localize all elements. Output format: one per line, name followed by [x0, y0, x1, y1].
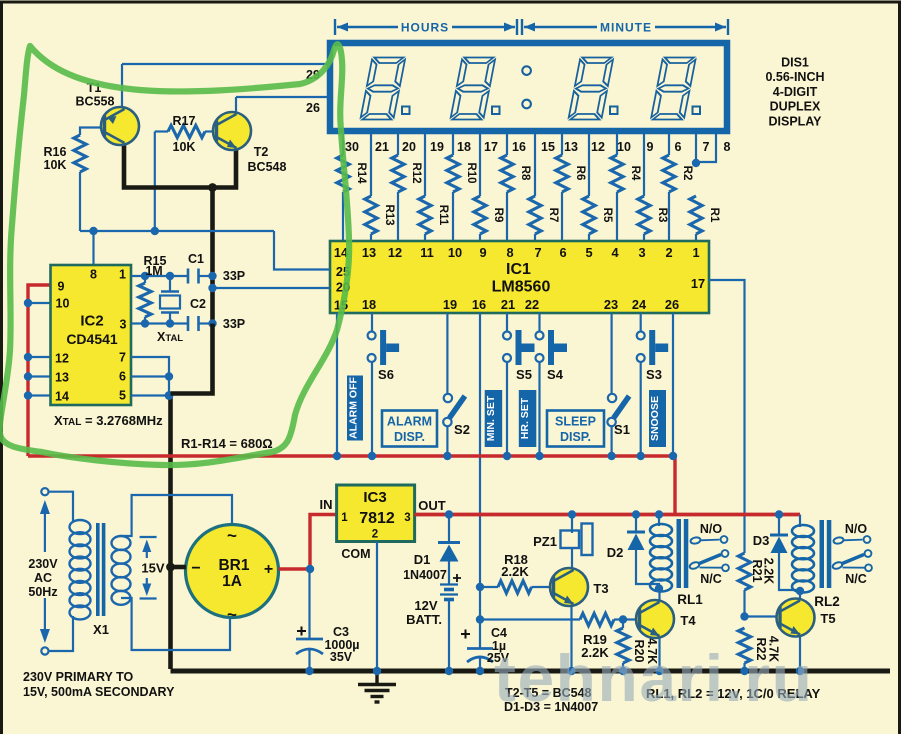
switch S5 — [503, 332, 511, 340]
svg-text:30: 30 — [345, 140, 359, 154]
svg-text:R1: R1 — [708, 208, 720, 223]
switch S2 toggle — [449, 396, 465, 418]
svg-text:R16: R16 — [44, 145, 67, 159]
relay RL2 contacts N/O N/C — [833, 537, 844, 545]
svg-text:26: 26 — [665, 297, 679, 312]
svg-text:C4: C4 — [491, 626, 507, 640]
svg-text:7: 7 — [534, 245, 541, 260]
svg-text:230V: 230V — [28, 557, 58, 571]
svg-text:33P: 33P — [223, 317, 245, 331]
svg-text:21: 21 — [375, 140, 389, 154]
svg-text:PZ1: PZ1 — [533, 534, 557, 549]
svg-text:R4: R4 — [629, 166, 641, 181]
resistor R6 — [561, 134, 563, 155]
wire IC1 pin 15 down — [336, 313, 338, 456]
relay RL1 coil — [658, 515, 660, 527]
svg-text:R5: R5 — [601, 208, 613, 223]
svg-text:26: 26 — [306, 101, 320, 115]
black wire crystal gnd to pin5 — [171, 324, 213, 394]
svg-text:14: 14 — [55, 390, 69, 404]
green marker loop — [0, 44, 349, 465]
svg-text:18: 18 — [362, 297, 376, 312]
switch S6 — [368, 332, 376, 340]
svg-text:5: 5 — [119, 389, 126, 403]
label box SLEEP DISP. — [547, 411, 604, 447]
ground bus dots right — [567, 667, 575, 675]
resistor R17 — [155, 130, 168, 132]
svg-text:IC2: IC2 — [80, 313, 103, 330]
svg-text:BC548: BC548 — [248, 160, 287, 174]
svg-text:R8: R8 — [519, 166, 531, 181]
red +V wire left (IC2 pin 9 to red bus) — [28, 285, 52, 456]
display DIS1 box — [330, 43, 727, 131]
svg-text:S5: S5 — [516, 367, 532, 382]
wire IC1 pin 25 — [274, 231, 330, 270]
svg-text:R10: R10 — [465, 162, 477, 183]
diode D3 — [778, 515, 780, 536]
MINUTE dimension arrow — [522, 19, 728, 35]
svg-text:1A: 1A — [222, 573, 242, 590]
15V dimension arrows — [140, 537, 157, 599]
svg-text:IN: IN — [320, 497, 333, 512]
svg-text:BC558: BC558 — [76, 95, 115, 109]
diode D2 — [635, 515, 637, 533]
wire secondary top to BR1 — [121, 495, 232, 536]
display digit 4 — [651, 58, 696, 120]
ground bus — [171, 669, 891, 674]
svg-text:LM8560: LM8560 — [492, 279, 551, 296]
svg-text:OUT: OUT — [418, 498, 446, 513]
black wire BR1 minus stub — [171, 565, 187, 570]
svg-text:1: 1 — [692, 245, 699, 260]
resistor R8 — [506, 134, 508, 155]
display colon — [522, 66, 531, 75]
svg-text:7: 7 — [119, 351, 126, 365]
svg-text:SLEEP: SLEEP — [555, 415, 596, 429]
wire R17 left to blue bus — [154, 132, 156, 232]
wire IC1 pin 22 down / switch S4 — [538, 313, 540, 332]
svg-text:10: 10 — [617, 140, 631, 154]
display pin numbers — [345, 140, 730, 154]
capacitor C1 33P — [187, 269, 190, 284]
svg-text:9: 9 — [58, 280, 65, 294]
svg-text:10K: 10K — [44, 158, 67, 172]
svg-text:17: 17 — [691, 276, 705, 291]
svg-text:DUPLEX: DUPLEX — [770, 100, 821, 114]
transformer X1 primary terminals + 230V arrows — [48, 492, 73, 521]
IC2 CD4541 box — [51, 265, 132, 405]
red wire BR1 plus to IC3 IN — [279, 515, 337, 570]
wire IC1 pin 24 down / switch S3 — [640, 313, 642, 332]
resistor R9 — [479, 134, 481, 196]
svg-text:S1: S1 — [614, 422, 630, 437]
svg-text:R6: R6 — [574, 166, 586, 181]
transformer X1 primary coil — [70, 520, 91, 619]
IC1 bottom pin numbers — [362, 297, 679, 312]
resistor R1 — [695, 134, 697, 163]
svg-text:R9: R9 — [492, 208, 504, 223]
black net T1/T2 collectors to ground — [124, 145, 236, 188]
transformer X1 core — [96, 523, 100, 616]
svg-text:R7: R7 — [547, 208, 559, 223]
resistor R11 — [424, 134, 426, 196]
resistor R14 — [342, 134, 344, 155]
svg-text:RL2: RL2 — [814, 594, 840, 609]
capacitor C2 33P — [187, 316, 190, 331]
svg-text:R3: R3 — [656, 208, 668, 223]
svg-text:S6: S6 — [378, 367, 394, 382]
svg-text:13: 13 — [55, 371, 69, 385]
wire IC1 pin 26 down — [672, 313, 674, 456]
svg-text:22: 22 — [525, 297, 539, 312]
svg-text:10: 10 — [56, 297, 70, 311]
relay RL1 contacts N/O N/C — [690, 537, 701, 545]
transistor T4 — [658, 589, 660, 604]
display pin 8 jog wire — [697, 134, 716, 162]
svg-text:SNOOSE: SNOOSE — [649, 396, 661, 441]
svg-text:R14: R14 — [355, 162, 367, 184]
svg-text:3: 3 — [638, 245, 645, 260]
svg-text:−: − — [191, 560, 200, 577]
wire R19 line from pin16 node — [480, 618, 580, 620]
wire IC1 pin 19 down / switch S2 — [446, 313, 448, 394]
display digit 3 — [568, 58, 613, 120]
svg-text:50Hz: 50Hz — [28, 585, 57, 599]
svg-text:+: + — [264, 561, 273, 578]
svg-text:3: 3 — [404, 512, 410, 524]
svg-text:23: 23 — [604, 297, 618, 312]
svg-text:0.56-INCH: 0.56-INCH — [765, 70, 824, 84]
resistor R7 — [534, 134, 536, 196]
resistor R16 — [80, 128, 107, 136]
svg-text:2: 2 — [372, 529, 378, 541]
label box ALARM DISP. — [382, 411, 437, 447]
svg-text:DIS1: DIS1 — [781, 56, 809, 70]
red +12V OUT bus — [415, 513, 800, 517]
wire IC1 pin 20 — [213, 287, 330, 289]
display pin 26 wire — [236, 96, 330, 98]
transistor T3 — [570, 604, 572, 671]
svg-text:ALARM OFF: ALARM OFF — [348, 377, 360, 439]
wire T1 emitter to display pin 29 — [121, 64, 123, 107]
svg-text:13: 13 — [564, 140, 578, 154]
svg-text:18: 18 — [457, 140, 471, 154]
svg-text:16: 16 — [472, 297, 486, 312]
label box SNOOZE — [649, 390, 666, 447]
svg-text:11: 11 — [420, 245, 434, 260]
label box ALARM OFF — [347, 376, 363, 441]
svg-text:7: 7 — [703, 140, 710, 154]
svg-text:C1: C1 — [188, 252, 204, 266]
svg-text:ALARM: ALARM — [387, 415, 432, 429]
svg-text:IC1: IC1 — [506, 261, 531, 278]
svg-text:D3: D3 — [753, 533, 770, 548]
svg-text:15V, 500mA SECONDARY: 15V, 500mA SECONDARY — [23, 685, 175, 699]
transistor T2 BC548 — [213, 112, 251, 150]
diode D1 1N4007 — [448, 515, 450, 543]
svg-text:7812: 7812 — [359, 510, 395, 527]
regulator IC3 7812 — [337, 485, 415, 542]
svg-text:T4: T4 — [680, 613, 696, 628]
resistor R13 — [370, 134, 372, 196]
svg-text:8: 8 — [506, 245, 513, 260]
svg-text:9: 9 — [647, 140, 654, 154]
svg-text:R13: R13 — [383, 204, 395, 225]
svg-text:HR. SET: HR. SET — [519, 397, 531, 439]
resistor R20 4.7K — [622, 620, 624, 629]
svg-text:N/C: N/C — [700, 572, 722, 586]
svg-text:DISPLAY: DISPLAY — [768, 114, 822, 128]
svg-text:S2: S2 — [454, 422, 470, 437]
wires IC2 pins 10,12,13,14 to left rail — [28, 302, 51, 304]
wire IC1 pin 21 down / switch S5 — [506, 313, 508, 332]
svg-text:2: 2 — [665, 245, 672, 260]
bridge rectifier BR1 — [186, 525, 279, 618]
relay RL1 core — [677, 519, 682, 588]
svg-text:16: 16 — [512, 140, 526, 154]
svg-text:X1: X1 — [93, 622, 109, 637]
display pin 29 wire — [122, 63, 330, 65]
resistor R10 — [452, 134, 454, 155]
display DIS1 label block — [765, 56, 824, 129]
svg-text:COM: COM — [341, 547, 370, 561]
IC2 pin numbers — [55, 268, 126, 404]
svg-text:RL1: RL1 — [677, 592, 703, 607]
label box MIN. SET — [485, 390, 503, 447]
svg-text:5: 5 — [585, 245, 592, 260]
svg-text:21: 21 — [501, 297, 515, 312]
resistor R2 — [668, 134, 670, 155]
switch S1 toggle — [614, 396, 630, 418]
svg-text:33P: 33P — [223, 269, 245, 283]
svg-text:4-DIGIT: 4-DIGIT — [773, 85, 818, 99]
svg-text:4: 4 — [611, 245, 619, 260]
ground symbol — [358, 671, 396, 702]
svg-text:AC: AC — [34, 571, 52, 585]
svg-text:10K: 10K — [173, 140, 196, 154]
transistor T5 — [799, 591, 801, 601]
switch S3 — [637, 332, 645, 340]
svg-text:1: 1 — [119, 268, 126, 282]
svg-text:~: ~ — [227, 605, 237, 624]
svg-text:17: 17 — [484, 140, 498, 154]
svg-text:1N4007: 1N4007 — [403, 568, 447, 582]
svg-text:D1: D1 — [414, 552, 431, 567]
svg-text:C2: C2 — [190, 297, 206, 311]
transistor T1 BC558 — [101, 107, 139, 145]
svg-text:R17: R17 — [173, 114, 196, 128]
resistor R15 1M — [144, 276, 146, 283]
display digit 1 — [360, 58, 405, 120]
battery 12V BATT — [440, 585, 458, 600]
svg-text:6: 6 — [119, 370, 126, 384]
svg-text:2.2K: 2.2K — [762, 558, 776, 584]
IC1 top pin numbers — [334, 245, 700, 260]
svg-text:35V: 35V — [330, 650, 353, 664]
label box HR. SET — [519, 390, 537, 447]
svg-text:19: 19 — [430, 140, 444, 154]
op-amp U1 IC1 LM8560 box — [330, 241, 709, 313]
svg-text:10: 10 — [448, 245, 462, 260]
svg-text:MINUTE: MINUTE — [600, 21, 652, 35]
svg-text:12: 12 — [55, 352, 69, 366]
resistor R3 — [643, 134, 645, 196]
wire IC2 pin 8 — [92, 231, 94, 265]
svg-text:MIN. SET: MIN. SET — [485, 395, 497, 441]
svg-text:HOURS: HOURS — [401, 21, 449, 35]
wire IC1 pin 16 long down — [479, 313, 481, 648]
wire T2 collector to display pin 26 — [235, 97, 237, 112]
svg-text:N/O: N/O — [845, 522, 868, 536]
svg-text:R2: R2 — [681, 166, 693, 181]
svg-text:BR1: BR1 — [218, 557, 249, 574]
svg-text:XTAL: XTAL — [157, 330, 183, 344]
svg-text:T3: T3 — [593, 581, 608, 596]
svg-text:2.2K: 2.2K — [501, 564, 529, 579]
resistor R18 2.2K — [480, 586, 498, 588]
svg-text:T5: T5 — [820, 611, 835, 626]
wire IC1 pin 18 down / switch S6 — [371, 313, 373, 332]
svg-text:20: 20 — [402, 140, 416, 154]
wire IC2 pin1 node — [131, 275, 187, 277]
svg-text:1: 1 — [341, 512, 348, 524]
svg-text:6: 6 — [559, 245, 566, 260]
svg-text:S3: S3 — [646, 367, 662, 382]
svg-text:R12: R12 — [410, 162, 422, 183]
relay RL2 core — [820, 520, 825, 588]
crystal XTAL — [169, 276, 171, 292]
svg-text:15: 15 — [541, 140, 555, 154]
svg-text:tehnari.ru: tehnari.ru — [494, 641, 813, 715]
svg-text:8: 8 — [90, 268, 97, 282]
svg-text:N/O: N/O — [700, 522, 723, 536]
svg-text:T2: T2 — [254, 145, 269, 159]
svg-text:8: 8 — [724, 140, 731, 154]
resistor R22 4.7K — [738, 628, 750, 663]
wire IC2 pin3 node — [131, 322, 187, 324]
svg-text:12V: 12V — [414, 598, 437, 613]
display digit 2 — [450, 58, 495, 120]
resistor R5 — [588, 134, 590, 196]
svg-text:DISP.: DISP. — [560, 430, 591, 444]
svg-text:6: 6 — [675, 140, 682, 154]
svg-text:R1-R14 = 680Ω: R1-R14 = 680Ω — [181, 436, 273, 451]
wires IC2 pins 7,6,5 — [131, 357, 169, 396]
wire secondary bottom to BR1 — [121, 598, 230, 650]
resistor R12 — [397, 134, 399, 155]
wire IC1 pin 23 down / switch S1 — [610, 313, 612, 394]
svg-text:13: 13 — [362, 245, 376, 260]
svg-text:S4: S4 — [547, 367, 564, 382]
svg-text:R11: R11 — [437, 205, 449, 226]
svg-text:19: 19 — [443, 297, 457, 312]
svg-text:24: 24 — [632, 297, 647, 312]
svg-text:DISP.: DISP. — [394, 430, 425, 444]
svg-text:3: 3 — [120, 318, 127, 332]
svg-text:12: 12 — [388, 245, 402, 260]
transformer X1 secondary coil — [112, 536, 131, 605]
switch S4 — [536, 332, 544, 340]
capacitor C3 1000u — [308, 569, 310, 639]
svg-text:BATT.: BATT. — [406, 612, 442, 627]
piezo PZ1 — [571, 515, 573, 534]
relay RL2 coil — [799, 515, 801, 528]
resistor R21 2.2K — [738, 553, 750, 590]
svg-text:15V: 15V — [141, 561, 164, 576]
svg-text:C3: C3 — [333, 625, 349, 639]
blue bus wire (R16/R17/IC2 pin8 to IC1 pin25) — [80, 230, 274, 232]
svg-text:1M: 1M — [145, 264, 162, 278]
capacitor C4 1u — [467, 647, 493, 650]
svg-text:N/C: N/C — [845, 572, 867, 586]
svg-text:IC3: IC3 — [363, 489, 386, 506]
resistor R19 2.2K — [580, 613, 614, 625]
svg-text:9: 9 — [479, 245, 486, 260]
red switch common bus — [28, 456, 675, 515]
svg-text:12: 12 — [591, 140, 605, 154]
svg-text:~: ~ — [227, 526, 237, 545]
svg-text:D2: D2 — [607, 545, 624, 560]
resistor R4 — [616, 134, 618, 155]
HOURS dimension arrow — [335, 19, 517, 35]
svg-text:230V PRIMARY TO: 230V PRIMARY TO — [23, 670, 134, 684]
wire R21 to T5 base — [745, 615, 783, 617]
svg-text:CD4541: CD4541 — [66, 331, 118, 347]
